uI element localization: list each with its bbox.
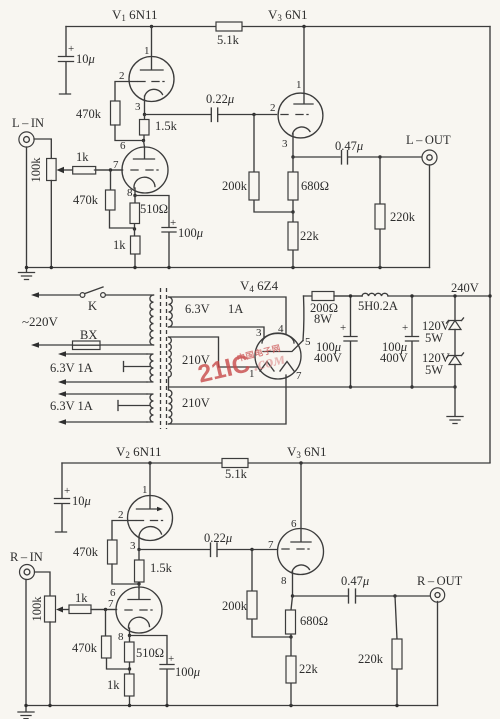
wire ground rail top section: [27, 267, 430, 269]
svg-text:100k: 100k: [29, 157, 43, 183]
svg-text:470k: 470k: [73, 193, 99, 207]
svg-text:5.1k: 5.1k: [217, 33, 240, 47]
svg-text:5W: 5W: [425, 331, 443, 345]
capacitor 100u cathode bypass (left): [135, 196, 176, 268]
wire 240V rail: [304, 295, 491, 297]
resistor 1k cathode lower (right): [129, 669, 131, 706]
node grid junction: [109, 168, 112, 171]
svg-text:7: 7: [268, 539, 274, 551]
svg-text:6: 6: [120, 140, 126, 152]
resistor 22k (right): [290, 637, 292, 706]
svg-text:1k: 1k: [76, 150, 89, 164]
svg-text:0.22μ: 0.22μ: [204, 531, 232, 545]
svg-text:+: +: [168, 653, 174, 665]
wire V3b pin6 anode: [291, 463, 311, 542]
capacitor 0.22u coupling (left): [145, 108, 255, 122]
svg-text:0.22μ: 0.22μ: [206, 92, 234, 106]
tube V1 upper triode envelope: [129, 57, 174, 102]
resistor 220k load (right): [395, 596, 397, 706]
resistor 1k cathode lower (left): [134, 229, 137, 268]
tube V2 lower triode envelope: [116, 587, 162, 633]
wire L-OUT down to rail: [429, 165, 431, 268]
wire V2b anode lead: [128, 588, 150, 600]
wire V3b grid dashes: [282, 548, 309, 550]
svg-text:6.3V: 6.3V: [185, 302, 210, 316]
center tap A: [124, 362, 151, 372]
node output junction: [378, 155, 381, 158]
svg-text:L – OUT: L – OUT: [406, 133, 451, 147]
svg-text:R – OUT: R – OUT: [417, 574, 463, 588]
resistor 5.1k (series, right channel): [222, 459, 248, 468]
svg-text:~220V: ~220V: [22, 314, 59, 329]
resistor 470k V2b grid leak: [106, 610, 130, 670]
transformer primary winding: [150, 295, 154, 345]
svg-text:0.47μ: 0.47μ: [341, 574, 369, 588]
resistor 680R cathode V3b: [291, 596, 293, 637]
svg-text:+: +: [68, 43, 74, 55]
svg-text:1k: 1k: [113, 238, 126, 252]
terminal L-OUT jack: [422, 150, 437, 165]
potentiometer 100k input (right): [45, 596, 56, 622]
wire mains line hot: [34, 294, 80, 296]
svg-text:V3 6N1: V3 6N1: [268, 7, 308, 23]
node V3b cathode junction: [291, 594, 294, 597]
wire V1 pin1 anode lead: [141, 27, 164, 71]
watermark 21IC: [195, 349, 253, 388]
resistor 1k grid stopper (right): [69, 605, 91, 614]
resistor 680R cathode V3 (left): [292, 157, 294, 212]
svg-text:470k: 470k: [73, 545, 99, 559]
capacitor 100u cathode bypass (right): [130, 636, 175, 706]
svg-text:1: 1: [296, 79, 302, 91]
svg-text:220k: 220k: [390, 210, 416, 224]
svg-text:V4 6Z4: V4 6Z4: [240, 278, 279, 294]
resistor 200R 8W: [312, 292, 334, 301]
svg-text:7: 7: [113, 159, 119, 171]
svg-text:22k: 22k: [300, 229, 320, 243]
terminal L-IN jack: [19, 132, 34, 147]
transformer 210V winding upper: [169, 337, 172, 377]
transformer 210V winding lower: [169, 390, 172, 424]
wire to V3b grid: [252, 549, 278, 551]
resistor 510R cathode (right): [129, 636, 131, 670]
wire V3 pin1 anode: [294, 27, 313, 105]
svg-text:2: 2: [118, 509, 124, 521]
svg-text:400V: 400V: [380, 351, 408, 365]
wire R-OUT down to rail: [437, 602, 439, 706]
node rail-V2 pin1: [148, 461, 151, 464]
svg-text:7: 7: [296, 370, 302, 382]
V4 cathode chevrons: [260, 362, 294, 372]
wire 470k bottom to 1.5k bottom junction: [115, 125, 144, 141]
node rail junctions: [50, 266, 53, 269]
svg-text:1.5k: 1.5k: [155, 119, 178, 133]
wire V1b cathode pin8: [134, 177, 155, 195]
tube V3b triode envelope (right): [278, 529, 324, 575]
resistor 470k V2 upper grid: [108, 540, 118, 564]
svg-text:3: 3: [256, 327, 262, 339]
wire right B+ vertical: [489, 27, 491, 463]
node V2 cathode junction: [137, 548, 140, 551]
node 680R bottom junction (right): [289, 635, 292, 638]
transformer 6.3V rectifier heater winding (right): [169, 297, 173, 327]
terminal R-IN jack: [20, 565, 35, 580]
svg-text:+: +: [402, 322, 408, 334]
wire junction to V2 lower pin6: [138, 584, 140, 588]
resistor 1k grid stopper (left): [73, 167, 96, 175]
tube V2 upper triode envelope: [128, 496, 173, 541]
node rail-V3b pin6: [299, 461, 302, 464]
wire L-IN to pot: [34, 139, 51, 159]
ground symbol bottom-left: [18, 706, 34, 719]
svg-text:6.3V 1A: 6.3V 1A: [50, 361, 93, 375]
svg-text:22k: 22k: [299, 662, 319, 676]
svg-text:L – IN: L – IN: [12, 116, 44, 130]
wire ground rail bottom section: [26, 705, 438, 707]
resistor 200k V3b grid: [252, 550, 289, 638]
svg-text:5: 5: [305, 336, 311, 348]
svg-text:100μ: 100μ: [178, 226, 203, 240]
center tap B: [118, 401, 150, 411]
wire 470k bottom corner: [112, 564, 139, 584]
svg-text:3: 3: [135, 101, 141, 113]
wire wiper-1k-grid: [95, 169, 123, 171]
svg-text:0.47μ: 0.47μ: [335, 139, 363, 153]
transformer 6.3V heater winding B (left): [61, 393, 147, 395]
svg-text:100μ: 100μ: [175, 665, 200, 679]
ground symbol top-left: [19, 268, 35, 280]
svg-text:V2 6N11: V2 6N11: [116, 444, 162, 460]
wire V1b grid pin7: [131, 169, 158, 171]
wire mains line neutral with fuse BX: [34, 344, 154, 346]
tube V1 lower triode envelope: [122, 147, 168, 193]
svg-text:8: 8: [127, 187, 133, 199]
resistor 200k V3 grid (left): [254, 115, 293, 213]
svg-text:240V: 240V: [451, 281, 479, 295]
wire wiper-1k-grid (right): [91, 609, 117, 611]
svg-text:6: 6: [291, 518, 297, 530]
svg-text:6.3V 1A: 6.3V 1A: [50, 399, 93, 413]
svg-text:2: 2: [270, 102, 276, 114]
svg-text:470k: 470k: [76, 107, 102, 121]
node V1b cathode junction: [133, 194, 136, 197]
node coupling junction (right): [250, 548, 253, 551]
transformer 6.3V heater winding A (left): [61, 353, 147, 355]
svg-text:5H0.2A: 5H0.2A: [358, 299, 398, 313]
svg-text:R – IN: R – IN: [10, 550, 43, 564]
wire B+ top rail: [66, 26, 490, 28]
wire B+ rail bottom section: [62, 462, 490, 464]
node 1.5k bottom junction: [137, 582, 140, 585]
node 510R bottom junction: [133, 227, 136, 230]
svg-text:4: 4: [278, 323, 284, 335]
svg-text:1.5k: 1.5k: [150, 561, 173, 575]
svg-text:100k: 100k: [30, 596, 44, 622]
svg-text:V1 6N11: V1 6N11: [112, 7, 158, 23]
V4 anode dome: [262, 334, 294, 344]
node rail-V3 pin1: [302, 25, 305, 28]
capacitor 10u input (right): [55, 463, 70, 532]
wire V2b cathode pin8: [128, 617, 149, 635]
svg-text:8: 8: [118, 631, 124, 643]
resistor 470k V1b grid leak: [110, 170, 135, 228]
svg-text:400V: 400V: [314, 351, 342, 365]
node V3 cathode junction: [291, 155, 294, 158]
wire to L-OUT: [380, 156, 422, 158]
wire V2 cathode pin3: [139, 527, 162, 550]
svg-text:3: 3: [282, 138, 288, 150]
svg-text:V3 6N1: V3 6N1: [287, 444, 327, 460]
capacitor 10u input (left): [59, 27, 74, 95]
wire V3 grid dashes: [281, 114, 308, 116]
svg-text:7: 7: [108, 598, 114, 610]
capacitor 0.22u coupling (right): [139, 543, 252, 557]
watermark chinese: [236, 343, 282, 364]
svg-text:220k: 220k: [358, 652, 384, 666]
potentiometer 100k input (left): [47, 159, 57, 181]
watermark com script: [251, 348, 287, 374]
wire junction to V1 lower pin6: [144, 141, 145, 148]
resistor 1.5k: [143, 115, 146, 141]
resistor 470k V1 upper grid: [111, 101, 121, 125]
svg-text:200k: 200k: [222, 599, 248, 613]
ground symbol PSU: [447, 387, 463, 424]
capacitor 0.47u output (left): [293, 151, 380, 165]
terminal R-OUT jack: [430, 588, 444, 602]
svg-text:1: 1: [144, 45, 150, 57]
svg-text:1A: 1A: [228, 302, 243, 316]
switch K: [80, 293, 85, 298]
svg-text:3: 3: [130, 540, 136, 552]
wire V1 grid pin2: [138, 81, 164, 83]
resistor 220k load (left): [379, 157, 381, 268]
fuse BX: [73, 341, 101, 350]
capacitor 100u 400V first: [344, 296, 357, 387]
resistor 5.1k (series, left channel): [216, 22, 242, 31]
node 510R bottom junction (right): [128, 667, 131, 670]
wire R-IN to pot: [35, 572, 51, 596]
V4 plate bar and pin5 lead: [263, 341, 303, 352]
wire V4 pin5 to B+ rail: [302, 296, 305, 341]
node 680R bottom junction: [291, 210, 294, 213]
zener 120V 5W upper: [447, 296, 464, 323]
node zener-rail junction: [453, 385, 456, 388]
svg-text:470k: 470k: [72, 641, 98, 655]
zener 120V 5W lower: [447, 353, 464, 358]
svg-text:1k: 1k: [107, 678, 120, 692]
wire HV return rail: [169, 386, 456, 388]
svg-text:680Ω: 680Ω: [301, 179, 329, 193]
svg-text:5W: 5W: [425, 363, 443, 377]
resistor 1.5k (right): [138, 550, 140, 585]
node coupling junction: [252, 113, 255, 116]
svg-text:510Ω: 510Ω: [136, 646, 164, 660]
svg-text:210V: 210V: [182, 396, 210, 410]
wire V2 pin1 anode: [137, 463, 159, 509]
svg-text:1: 1: [142, 484, 148, 496]
wire to R-OUT: [395, 595, 431, 597]
wire V2b grid pin7: [125, 609, 152, 611]
capacitor 0.47u output (right): [293, 589, 396, 603]
wire to V3 grid: [254, 114, 277, 116]
transformer core: [160, 288, 162, 429]
node output junction (right): [393, 594, 396, 597]
svg-text:+: +: [64, 485, 70, 497]
svg-text:5.1k: 5.1k: [225, 467, 248, 481]
node 1.5k bottom junction: [142, 139, 145, 142]
resistor 510R cathode (left): [134, 196, 137, 230]
wire V2 grid pin2: [137, 520, 163, 522]
svg-text:8W: 8W: [314, 312, 332, 326]
node rail-V1 pin1: [150, 25, 153, 28]
svg-text:BX: BX: [80, 328, 97, 342]
node V2b cathode junction: [128, 634, 131, 637]
wire V1 cathode pin3: [145, 89, 163, 114]
tube V3 triode envelope (left): [278, 93, 323, 138]
svg-text:K: K: [88, 299, 97, 313]
wire V1b anode lead: [134, 147, 155, 159]
choke 5H 0.2A: [362, 293, 388, 296]
node grid junction (right): [104, 608, 107, 611]
svg-text:+: +: [340, 322, 346, 334]
wire V3 cathode pin3: [293, 127, 311, 157]
wire V3b cathode pin8: [292, 565, 310, 596]
wiper arrow 100k: [61, 169, 73, 171]
tube V4 rectifier envelope: [255, 333, 301, 379]
svg-text:510Ω: 510Ω: [140, 202, 168, 216]
capacitor 100u 400V second: [406, 296, 419, 387]
svg-text:10μ: 10μ: [76, 52, 95, 66]
node V1 cathode junction: [143, 113, 146, 116]
svg-text:200k: 200k: [222, 179, 248, 193]
svg-text:680Ω: 680Ω: [300, 614, 328, 628]
svg-text:8: 8: [281, 575, 287, 587]
resistor 22k (left): [292, 212, 294, 268]
svg-text:+: +: [170, 217, 176, 229]
svg-text:10μ: 10μ: [72, 494, 91, 508]
wiper arrow 100k (right): [60, 609, 69, 611]
svg-text:2: 2: [119, 70, 125, 82]
svg-text:1k: 1k: [75, 591, 88, 605]
